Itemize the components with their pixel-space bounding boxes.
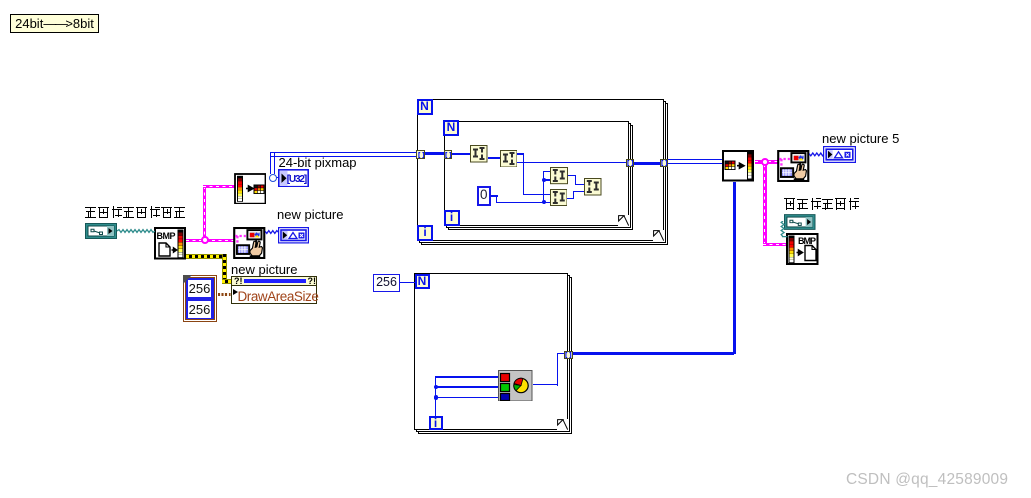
svg-text:[U32]: [U32]: [286, 174, 307, 185]
svg-text:BMP: BMP: [157, 231, 176, 241]
svg-text:BMP: BMP: [798, 236, 816, 246]
